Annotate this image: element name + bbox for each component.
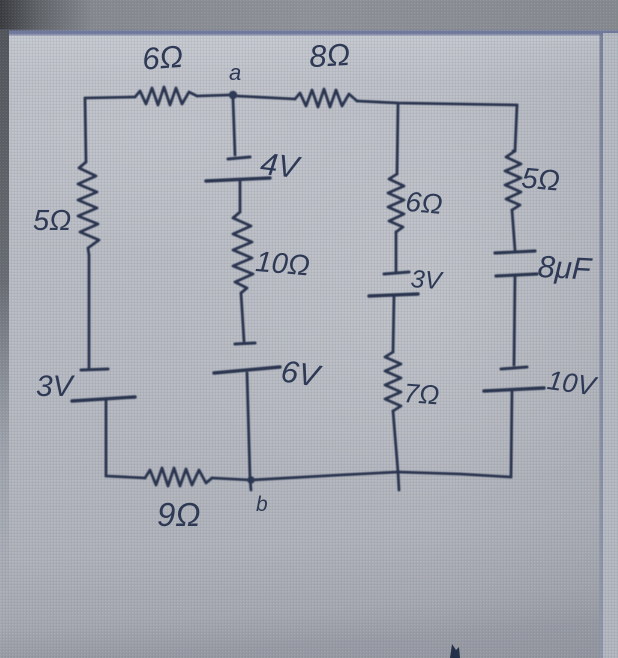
battery 6V long plate <box>214 367 280 373</box>
svg-text:3V: 3V <box>410 265 445 295</box>
wire branch4 vertical to 5ohm <box>513 150 515 153</box>
wire branch3 vertical top <box>397 104 398 174</box>
right margin strip <box>603 33 618 658</box>
wire bottom to node b <box>212 478 251 480</box>
wire 3V battery down to bottom <box>105 400 108 476</box>
svg-text:8μF: 8μF <box>537 249 594 287</box>
wire node a down <box>233 99 235 155</box>
light band under frame line <box>0 36 618 41</box>
battery 10V short plate <box>501 367 527 369</box>
bottom shade <box>0 430 618 658</box>
svg-text:5Ω: 5Ω <box>33 205 71 237</box>
battery 10V long plate <box>484 388 544 391</box>
top blue frame line <box>0 30 618 32</box>
wire top to node a <box>197 95 229 96</box>
wire 6ohm to 3V branch3 <box>395 232 398 272</box>
wire bottom right of b <box>251 472 511 480</box>
battery 4V short plate <box>228 157 250 159</box>
capacitor 8uF top plate <box>495 251 535 253</box>
wire left branch vertical top <box>85 98 86 162</box>
paper sheen <box>160 90 618 510</box>
resistor 9ohm bottom zigzag <box>145 468 212 486</box>
capacitor 8uF bottom plate <box>496 274 537 276</box>
battery 3V branch3 long plate <box>369 294 418 296</box>
svg-text:6Ω: 6Ω <box>141 39 184 77</box>
wire 10V battery down to bottom corner <box>511 391 512 477</box>
pen mark bottom edge <box>450 644 460 658</box>
wire 10ohm to 6V battery <box>241 293 244 341</box>
node b junction dot <box>247 476 255 484</box>
right vignette <box>430 30 618 658</box>
svg-text:6Ω: 6Ω <box>404 186 443 220</box>
svg-text:7Ω: 7Ω <box>403 378 441 410</box>
svg-text:5Ω: 5Ω <box>520 162 561 197</box>
svg-text:10Ω: 10Ω <box>254 246 311 283</box>
wire 6V battery down through node b <box>247 373 251 490</box>
wire left to 3V battery <box>88 255 91 369</box>
resistor 5ohm branch4 zigzag <box>505 151 521 210</box>
wire 7ohm to bottom junction <box>393 411 399 490</box>
resistor 6ohm top zigzag <box>135 87 197 105</box>
resistor 8ohm top zigzag <box>295 89 357 107</box>
battery 3V left long plate <box>72 397 135 401</box>
wire bottom left segment <box>106 476 145 478</box>
resistor 10ohm zigzag <box>233 212 253 293</box>
svg-text:3V: 3V <box>36 370 76 403</box>
resistor 7ohm zigzag <box>385 352 401 411</box>
wire top right corner down <box>515 105 517 151</box>
wire 4V to 10ohm <box>239 181 242 212</box>
svg-text:a: a <box>229 60 241 85</box>
wire top left horizontal <box>85 97 135 98</box>
wire top right horizontal <box>357 101 517 105</box>
resistor 6ohm branch3 zigzag <box>388 174 404 232</box>
left dark strip <box>0 30 9 590</box>
right blue frame line <box>600 33 604 658</box>
battery 6V short plate <box>235 343 255 344</box>
battery 3V left short plate <box>81 369 108 370</box>
paper top-left glow <box>0 0 400 260</box>
svg-text:8Ω: 8Ω <box>308 37 351 74</box>
battery 4V long plate <box>206 178 270 181</box>
svg-text:b: b <box>256 493 268 516</box>
top gray band <box>0 0 618 31</box>
wire 5ohm to capacitor <box>512 210 515 250</box>
wire capacitor to 10V battery <box>514 276 515 365</box>
svg-text:9Ω: 9Ω <box>157 496 200 533</box>
wire 3V branch3 to 7ohm <box>393 296 394 352</box>
wire node a to 8ohm <box>237 96 295 99</box>
battery 3V branch3 short plate <box>384 272 409 274</box>
node a junction dot <box>229 91 237 99</box>
resistor 5ohm left zigzag <box>78 162 99 255</box>
